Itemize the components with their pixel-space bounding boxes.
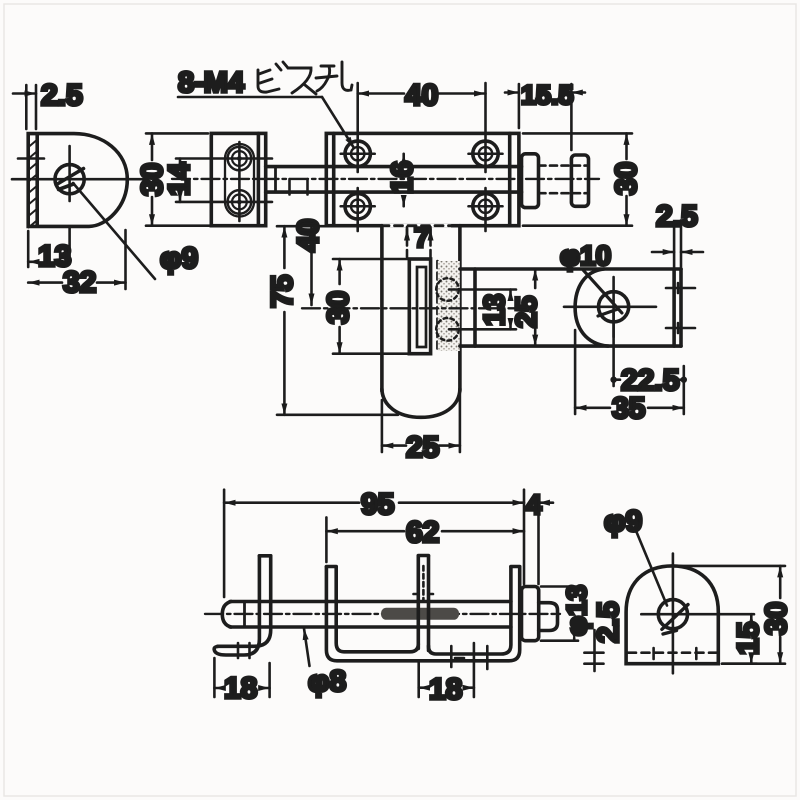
svg-text:φ9: φ9 [604, 505, 642, 538]
knob shaft [416, 556, 420, 649]
dim 18 left [214, 658, 269, 697]
hidden screw circles [436, 278, 459, 340]
dim 16 hole row spacing [402, 154, 405, 207]
dim 13 [28, 231, 69, 267]
dim phi13 [541, 587, 578, 641]
L-bracket foot ticks [238, 643, 250, 658]
svg-text:13: 13 [479, 294, 511, 326]
D-bracket hatch inner line [35, 134, 39, 226]
svg-text:φ9: φ9 [160, 242, 198, 275]
svg-text:2.5: 2.5 [656, 200, 698, 233]
svg-text:2.5: 2.5 [592, 601, 625, 643]
rod hidden lines [539, 166, 589, 194]
svg-text:7: 7 [414, 222, 430, 253]
keeper hole centerlines [176, 142, 272, 221]
D-bracket hatch strokes [29, 140, 37, 228]
dim 62 [326, 517, 524, 562]
slot inner [417, 267, 426, 347]
hidden slot lines (7) [407, 227, 437, 351]
tongue sides [380, 226, 384, 391]
svg-text:φ13: φ13 [561, 585, 592, 636]
dim 25 (vert) [534, 269, 537, 346]
dome leader phi9 [636, 530, 667, 605]
dim 40 [358, 92, 486, 95]
phi10 leader+slot [583, 270, 622, 316]
svg-text:30: 30 [610, 162, 643, 195]
dome base ticks [654, 648, 697, 659]
collar (phi13) [522, 587, 539, 641]
dim 95 [224, 490, 524, 597]
phi10 bracket right edges [672, 269, 676, 346]
keeper hole 2 [228, 190, 252, 214]
katakana SU [288, 68, 316, 94]
bolt tip line [274, 167, 277, 193]
long line bottom [460, 344, 681, 348]
keeper edge plate [473, 269, 477, 346]
dim 30 plate height right [523, 133, 632, 225]
dome hole [658, 600, 687, 629]
dim 75 [277, 226, 398, 415]
dim 30 dome [676, 566, 785, 664]
svg-text:14: 14 [163, 162, 196, 196]
upright3 [429, 567, 511, 654]
label underline + leader [178, 97, 354, 148]
dim 18 right [419, 643, 474, 697]
edge hole ticks [666, 283, 695, 333]
svg-text:18: 18 [429, 673, 462, 706]
M4 screw hole at 485.5,153.75 [473, 141, 498, 166]
bolt bar edges [266, 165, 522, 169]
phi10 centerlines [564, 277, 656, 337]
kanji KOU (hole) [316, 62, 352, 91]
svg-text:φ10: φ10 [560, 240, 611, 271]
dim 15 [722, 614, 757, 664]
latch body plate [326, 133, 519, 225]
hole row lines [449, 290, 516, 330]
svg-text:62: 62 [406, 516, 439, 549]
dim 35 [575, 330, 684, 414]
centerline middle view [302, 307, 533, 309]
M4 screw hole at 485.5,206.25 [473, 194, 498, 219]
dim 30 slot [333, 259, 409, 354]
keeper hole 1 [228, 147, 252, 171]
svg-text:8-M4: 8-M4 [178, 67, 244, 99]
base ticks [451, 646, 487, 669]
svg-text:75: 75 [266, 275, 299, 308]
svg-text:35: 35 [612, 392, 645, 425]
dim 2.5 dome plate [584, 630, 603, 671]
dim 25 bottom [382, 394, 460, 452]
main centerline [172, 178, 599, 180]
hatch region [438, 261, 460, 351]
M4 screw hole at 357.7,153.75 [345, 141, 370, 166]
svg-text:25: 25 [511, 296, 543, 328]
dim 40 (vert) [310, 226, 313, 305]
dim 4 [539, 495, 554, 584]
shaft flange ticks [414, 566, 434, 600]
D-bracket outline [28, 134, 127, 227]
dome centerlines [641, 554, 754, 674]
svg-text:25: 25 [406, 431, 439, 464]
plate bottom dashed (tongue hidden) [382, 224, 450, 227]
svg-text:15.5: 15.5 [521, 80, 574, 110]
bottom centerline [205, 613, 560, 615]
leader to phi9 label [73, 183, 155, 279]
dome bracket outline [626, 566, 718, 664]
keeper countersink obround [225, 144, 254, 217]
svg-text:16: 16 [386, 161, 419, 194]
dome hidden base line [628, 651, 717, 654]
katakana BI [258, 62, 288, 92]
svg-text:40: 40 [292, 219, 325, 252]
phi10 bracket arc [575, 269, 608, 346]
svg-text:95: 95 [361, 488, 394, 521]
phi10 hole [599, 292, 629, 322]
phi8 label + leader [304, 629, 310, 667]
D-bracket hole slot marks [57, 169, 84, 190]
dim 32 [28, 230, 125, 289]
dim 14 keeper hole spacing [179, 159, 182, 202]
hidden pin on bar [290, 179, 308, 195]
dim 13 [509, 290, 512, 330]
long line top (plate top / ext to phi10 bracket) [460, 267, 681, 271]
tongue bottom arc [382, 389, 460, 417]
svg-text:30: 30 [760, 602, 793, 635]
svg-text:18: 18 [224, 672, 257, 705]
rod cap tick [243, 602, 246, 628]
dim 30 keeper height [146, 133, 220, 225]
dim 22.5 [610, 313, 687, 414]
svg-text:32: 32 [63, 266, 96, 299]
svg-text:2.5: 2.5 [41, 79, 83, 112]
svg-text:φ8: φ8 [308, 665, 346, 698]
rod left cap [222, 602, 231, 628]
dim 2.5 (plate thickness) [13, 85, 36, 129]
dim 2.5 (bracket thickness) [652, 222, 703, 267]
svg-text:30: 30 [322, 291, 355, 324]
collar [522, 154, 539, 208]
M4 screw hole at 357.7,206.25 [345, 194, 370, 219]
dome hole slot [662, 605, 688, 635]
upright2 [326, 567, 519, 661]
knob tip [539, 603, 558, 631]
slot outer [409, 259, 430, 354]
svg-text:40: 40 [405, 79, 438, 112]
dim 7 [407, 229, 431, 240]
hole vertical centerlines / ext for 40 [358, 83, 486, 231]
D-bracket hole [55, 165, 84, 194]
svg-text:4: 4 [526, 489, 542, 520]
keeper plate (left) [211, 133, 265, 225]
rod edges [230, 600, 511, 604]
threaded section [381, 608, 459, 620]
upright1 (L-bracket) [214, 556, 259, 655]
dim 15.5 [505, 84, 585, 150]
D-bracket centerlines [12, 146, 146, 264]
knob (plan) [571, 155, 588, 206]
